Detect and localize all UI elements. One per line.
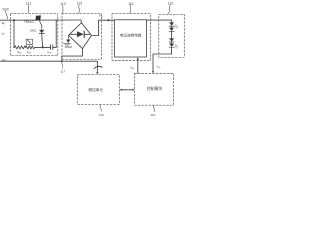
LED light arrows upper: [174, 25, 178, 29]
wire bottom row of dimmer: [13, 46, 15, 48]
control module dashed box: [135, 73, 174, 105]
capacitor Cab: [51, 45, 53, 49]
leader for 110: [168, 5, 170, 14]
leader for 102: [5, 11, 7, 19]
wire diac down to row: [41, 34, 44, 48]
diac D1: [39, 30, 44, 33]
leader for 117 node label: [62, 62, 63, 69]
svg-text:GND2: GND2: [65, 45, 73, 49]
svg-text:控制模块: 控制模块: [147, 86, 162, 91]
dimmer dashed box 111: [11, 14, 58, 56]
LED D2: [169, 22, 174, 25]
pot wiper arrow: [27, 40, 30, 43]
svg-text:114: 114: [128, 2, 134, 6]
wire bridge bottom return: [62, 49, 83, 62]
ground GND2 bars: [63, 44, 70, 46]
svg-text:117: 117: [61, 70, 66, 74]
svg-text:V~: V~: [2, 32, 6, 36]
wire row middle: [35, 46, 50, 48]
svg-text:111: 111: [26, 2, 31, 6]
converter dashed box 113: [112, 14, 151, 61]
pot body box: [26, 39, 32, 45]
leader for 115 under module: [153, 105, 154, 111]
node DIAC to row junction: [42, 46, 44, 48]
node left rail junction: [13, 19, 15, 21]
MCU dashed box: [77, 74, 119, 104]
LED D3: [169, 28, 174, 31]
arrowhead into MCU box: [96, 72, 98, 74]
wire AC line L: [0, 19, 81, 21]
leader for 116 under MCU: [100, 105, 101, 111]
bridge rectifier diamond: [69, 23, 92, 49]
wire converter to LED string: [146, 20, 171, 22]
node Vin junction dot: [107, 19, 109, 21]
LED light arrows lower: [174, 44, 178, 48]
arrowhead into control module box: [152, 71, 154, 73]
wire LED return: [153, 47, 172, 72]
svg-text:112: 112: [60, 2, 66, 6]
wire left rail: [13, 20, 15, 47]
svg-text:微控单元: 微控单元: [88, 87, 103, 92]
ground GND2 stub and arrow: [67, 35, 69, 39]
triac gate lead: [39, 20, 42, 30]
svg-text:110: 110: [168, 2, 174, 6]
svg-text:115: 115: [151, 113, 156, 117]
wire sense up arrow: [137, 60, 139, 74]
leader for 113: [129, 5, 132, 13]
leader for 114 vmains label: [94, 66, 102, 68]
node bottom return junction: [61, 60, 63, 62]
resistor Rab: [14, 46, 25, 49]
wire AC neutral N: [0, 61, 97, 72]
svg-text:113: 113: [77, 2, 83, 6]
svg-text:116: 116: [99, 113, 104, 117]
potentiometer Pab: [26, 46, 35, 49]
double arrow between MCU and module: [121, 89, 133, 91]
triac symbol: [35, 16, 40, 21]
rectifier dashed box 112: [62, 14, 102, 60]
svg-text:TRIAC: TRIAC: [24, 20, 35, 24]
wire row right end up to triac output: [53, 20, 56, 48]
LED D4: [169, 38, 174, 41]
svg-text:电压转换电路: 电压转换电路: [120, 33, 142, 38]
leader for 112: [61, 5, 64, 13]
svg-text:102: 102: [2, 7, 9, 12]
leader for 111: [27, 5, 30, 13]
svg-text:DIAC: DIAC: [30, 29, 37, 33]
wire stub into bridge top: [80, 20, 82, 23]
converter solid box: [115, 20, 147, 57]
LED dashed box 110: [159, 14, 185, 57]
wire bridge dc out to converter: [92, 20, 115, 35]
diode inside bridge: [70, 33, 77, 35]
LED D5: [169, 44, 174, 47]
